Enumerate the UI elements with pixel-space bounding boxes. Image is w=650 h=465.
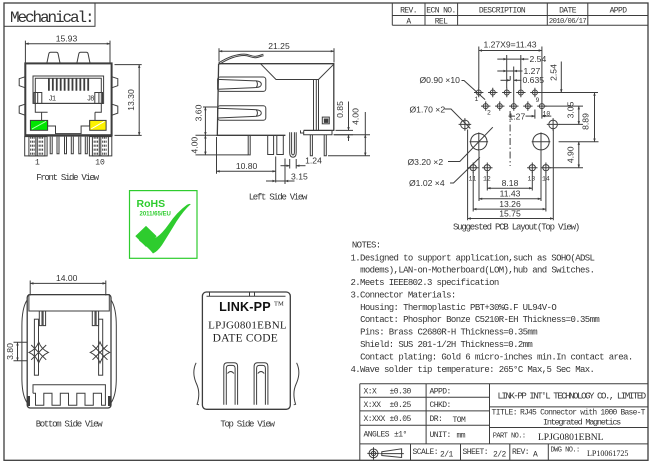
svg-text:Suggested PCB Layout(Top View): Suggested PCB Layout(Top View) <box>453 223 579 233</box>
svg-text:Contact plating: Gold 6 micro-: Contact plating: Gold 6 micro-inches min… <box>360 352 633 362</box>
svg-text:LPJG0801EBNL: LPJG0801EBNL <box>208 319 287 331</box>
left view right pins <box>310 135 326 156</box>
svg-text:1: 1 <box>475 96 479 103</box>
bottom view feet marks <box>27 396 30 406</box>
pcb bottom hole 11 <box>468 163 478 173</box>
svg-text:3.60: 3.60 <box>194 104 204 121</box>
pcb medium hole right <box>547 118 560 131</box>
svg-text:3.05: 3.05 <box>565 101 575 118</box>
LED yellow <box>90 120 106 130</box>
svg-text:Front Side View: Front Side View <box>36 173 99 183</box>
pcb outline verticals <box>468 130 554 221</box>
front view side tab left lower <box>19 104 25 115</box>
front view shelf line <box>42 102 95 104</box>
title block grid <box>360 384 648 461</box>
svg-text:APPD: APPD <box>610 6 628 15</box>
bottom view body <box>27 295 111 408</box>
svg-text:DESCRIPTION: DESCRIPTION <box>479 6 526 15</box>
svg-text:2/2: 2/2 <box>493 450 507 459</box>
svg-text:modems),LAN-on-Motherboard(LOM: modems),LAN-on-Motherboard(LOM),hub and … <box>360 266 594 276</box>
svg-text:14.00: 14.00 <box>56 273 78 283</box>
svg-text:UNIT:: UNIT: <box>430 431 451 440</box>
front view contact comb <box>49 78 88 90</box>
svg-text:2011/65/EU: 2011/65/EU <box>140 212 171 218</box>
svg-text:1.24: 1.24 <box>305 155 322 165</box>
svg-text:DWG NO.:: DWG NO.: <box>551 446 580 454</box>
svg-text:21.25: 21.25 <box>268 41 290 51</box>
svg-text:DATE: DATE <box>559 6 577 15</box>
svg-text:3.15: 3.15 <box>291 171 308 181</box>
svg-text:A: A <box>533 450 538 459</box>
svg-text:Mechanical:: Mechanical: <box>10 9 93 27</box>
svg-text:Ø3.20 ×2: Ø3.20 ×2 <box>408 157 444 167</box>
front view bottom edge <box>25 134 112 136</box>
svg-text:8.89: 8.89 <box>581 113 591 130</box>
left view middle pin block <box>268 135 284 154</box>
left view ground U pin <box>290 132 297 157</box>
svg-text:±0.25: ±0.25 <box>390 401 412 410</box>
svg-text:APPD:: APPD: <box>430 387 451 396</box>
title box Mechanical <box>4 3 95 26</box>
svg-text:REL: REL <box>435 17 448 26</box>
svg-text:RoHS: RoHS <box>137 198 166 210</box>
svg-text:11.43: 11.43 <box>500 189 521 199</box>
top view spring right <box>294 363 299 405</box>
svg-text:Integrated Magnetics: Integrated Magnetics <box>543 418 621 428</box>
front view latch window right <box>95 93 103 104</box>
front view port outer opening <box>33 76 104 103</box>
svg-text:LPJG0801EBNL: LPJG0801EBNL <box>538 433 604 443</box>
svg-text:0.635: 0.635 <box>523 75 545 85</box>
svg-text:SHEET:: SHEET: <box>463 448 489 457</box>
top view spring left <box>194 363 199 405</box>
svg-text:X:X: X:X <box>364 387 378 396</box>
svg-text:ANGLES: ANGLES <box>364 431 390 440</box>
pcb medium hole left <box>459 118 472 131</box>
bottom view right spring edge <box>111 301 116 403</box>
front view lower port stepped profile <box>35 103 101 133</box>
svg-text:J1: J1 <box>49 95 56 103</box>
left view body outline <box>217 64 333 136</box>
svg-text:0.85: 0.85 <box>335 101 345 118</box>
LED green <box>30 120 47 130</box>
svg-text:DR:: DR: <box>430 415 443 424</box>
svg-text:4.90: 4.90 <box>565 146 575 163</box>
bottom view star post right <box>90 342 109 363</box>
svg-text:4.00: 4.00 <box>351 108 361 125</box>
svg-text:Shield: SUS 201-1/2H Thicknes: Shield: SUS 201-1/2H Thickness=0.2mm <box>360 340 532 350</box>
front view outer shield body <box>25 63 111 135</box>
revision table <box>392 3 648 25</box>
front view port inner wall <box>35 78 101 103</box>
svg-text:10.80: 10.80 <box>236 161 258 171</box>
svg-text:2.54: 2.54 <box>548 64 558 81</box>
pcb hole row 2 <box>481 101 547 110</box>
left view pin thin left <box>248 135 250 155</box>
svg-text:10: 10 <box>95 158 105 167</box>
pcb bottom hole 14 <box>541 163 551 173</box>
svg-text:2: 2 <box>487 110 491 117</box>
svg-text:1: 1 <box>35 158 40 167</box>
bottom view star post left <box>29 342 48 363</box>
bottom view slot right <box>99 319 103 375</box>
svg-text:2.54: 2.54 <box>530 54 547 64</box>
svg-text:DATE CODE: DATE CODE <box>213 332 278 344</box>
left view latch slot upper <box>218 77 266 91</box>
pcb bottom hole 13 <box>527 163 537 173</box>
svg-text:NOTES:: NOTES: <box>352 241 381 251</box>
svg-text:TM: TM <box>274 301 284 308</box>
bottom view comb <box>33 385 105 405</box>
svg-text:mm: mm <box>457 432 466 441</box>
svg-text:Top Side View: Top Side View <box>220 419 275 429</box>
svg-text:±0.30: ±0.30 <box>390 387 412 396</box>
svg-text:15.75: 15.75 <box>499 208 521 218</box>
left view chamfer fold <box>261 64 334 131</box>
top view tab right <box>254 363 268 405</box>
top view notches <box>207 293 286 297</box>
svg-text:8.18: 8.18 <box>502 178 519 188</box>
svg-text:Ø1.02 ×4: Ø1.02 ×4 <box>409 178 445 188</box>
bottom view label plate <box>29 295 109 311</box>
svg-text:Housing: Thermoplastic PBT+30%: Housing: Thermoplastic PBT+30%G.F UL94V-… <box>360 303 556 313</box>
projection symbol target <box>369 449 378 458</box>
svg-text:Ø0.90 ×10: Ø0.90 ×10 <box>420 75 461 85</box>
front view middle pins <box>50 137 87 154</box>
svg-text:13.26: 13.26 <box>499 199 521 209</box>
front view top tab right <box>77 52 90 63</box>
bottom view pin pair right <box>92 311 98 326</box>
front view side tab left upper <box>19 77 25 88</box>
svg-text:X:XXX: X:XXX <box>364 415 386 424</box>
svg-text:2.Meets IEEE802.3 specificatio: 2.Meets IEEE802.3 specification <box>351 278 499 288</box>
svg-text:1.27X9=11.43: 1.27X9=11.43 <box>483 40 536 50</box>
svg-text:11: 11 <box>469 176 477 183</box>
rohs checkmark <box>135 226 156 247</box>
svg-text:13.30: 13.30 <box>126 89 136 111</box>
bottom view left spring edge <box>22 301 27 403</box>
bottom view pin pair left <box>39 311 45 326</box>
front view side tab right lower <box>112 104 118 115</box>
left view spring wire top <box>219 54 264 63</box>
svg-text:15.93: 15.93 <box>56 33 78 43</box>
svg-text:TITLE:: TITLE: <box>492 409 518 418</box>
svg-text:J8: J8 <box>87 95 94 103</box>
pcb large hole right <box>533 134 549 150</box>
svg-text:2/1: 2/1 <box>440 450 454 459</box>
pcb large hole left <box>471 134 487 150</box>
svg-text:LINK-PP: LINK-PP <box>219 300 271 314</box>
svg-text:LINK-PP INT'L TECHNOLOGY CO.,: LINK-PP INT'L TECHNOLOGY CO., LIMITED <box>498 391 646 401</box>
rohs box <box>130 191 198 259</box>
left view foot plate <box>301 130 333 134</box>
svg-text:PART NO.:: PART NO.: <box>493 432 526 440</box>
svg-text:SCALE:: SCALE: <box>413 448 439 457</box>
svg-text:REV:: REV: <box>512 448 529 457</box>
svg-text:X:XX: X:XX <box>364 401 382 410</box>
front view bottom skirt right block <box>89 137 111 156</box>
svg-text:3.80: 3.80 <box>5 343 15 360</box>
svg-text:4.00: 4.00 <box>190 137 200 154</box>
svg-text:Left Side View: Left Side View <box>249 192 308 202</box>
left view shield hole square <box>322 117 329 124</box>
front view bottom skirt left block <box>25 137 47 156</box>
svg-text:Ø1.70 ×2: Ø1.70 ×2 <box>410 104 446 114</box>
svg-text:1.Designed to support applicat: 1.Designed to support application,such a… <box>351 253 595 263</box>
pcb hole labels <box>469 96 551 183</box>
svg-text:3.Connector Materials:: 3.Connector Materials: <box>351 291 456 301</box>
svg-text:RJ45 Connector with 1000 Base-: RJ45 Connector with 1000 Base-T <box>520 409 646 418</box>
svg-text:LP10061725: LP10061725 <box>587 449 628 458</box>
pcb centerline <box>509 111 511 166</box>
bottom view slot left <box>34 319 38 375</box>
front view latch window left <box>34 93 42 104</box>
left view latch slot lower <box>218 106 266 120</box>
front view top tab left <box>47 52 60 63</box>
front view side tab right upper <box>112 77 118 88</box>
top view tab left <box>224 363 238 405</box>
top view body <box>202 292 290 409</box>
svg-text:2010/06/17: 2010/06/17 <box>549 18 586 26</box>
svg-text:REV.: REV. <box>400 6 417 15</box>
svg-text:Bottom Side View: Bottom Side View <box>36 419 104 429</box>
svg-text:4.Wave solder tip temperature:: 4.Wave solder tip temperature: 265°C Max… <box>351 365 595 375</box>
svg-text:TOM: TOM <box>453 416 467 425</box>
svg-text:Contact: Phosphor Bonze C5210R: Contact: Phosphor Bonze C5210R-EH Thickn… <box>360 315 599 325</box>
pcb hole row 1 <box>474 88 540 97</box>
left view inner vertical wall <box>314 80 317 131</box>
svg-text:ECN NO.: ECN NO. <box>426 6 455 15</box>
svg-text:±1°: ±1° <box>394 431 407 440</box>
svg-text:13: 13 <box>528 176 536 183</box>
projection symbol cone <box>380 449 404 458</box>
svg-text:±0.05: ±0.05 <box>390 415 412 424</box>
svg-text:CHKD:: CHKD: <box>430 401 451 410</box>
svg-text:Pins: Brass C2680R-H Thicknes: Pins: Brass C2680R-H Thickness=0.35mm <box>360 328 537 338</box>
svg-text:9: 9 <box>536 97 540 104</box>
pcb bottom hole 12 <box>482 163 492 173</box>
